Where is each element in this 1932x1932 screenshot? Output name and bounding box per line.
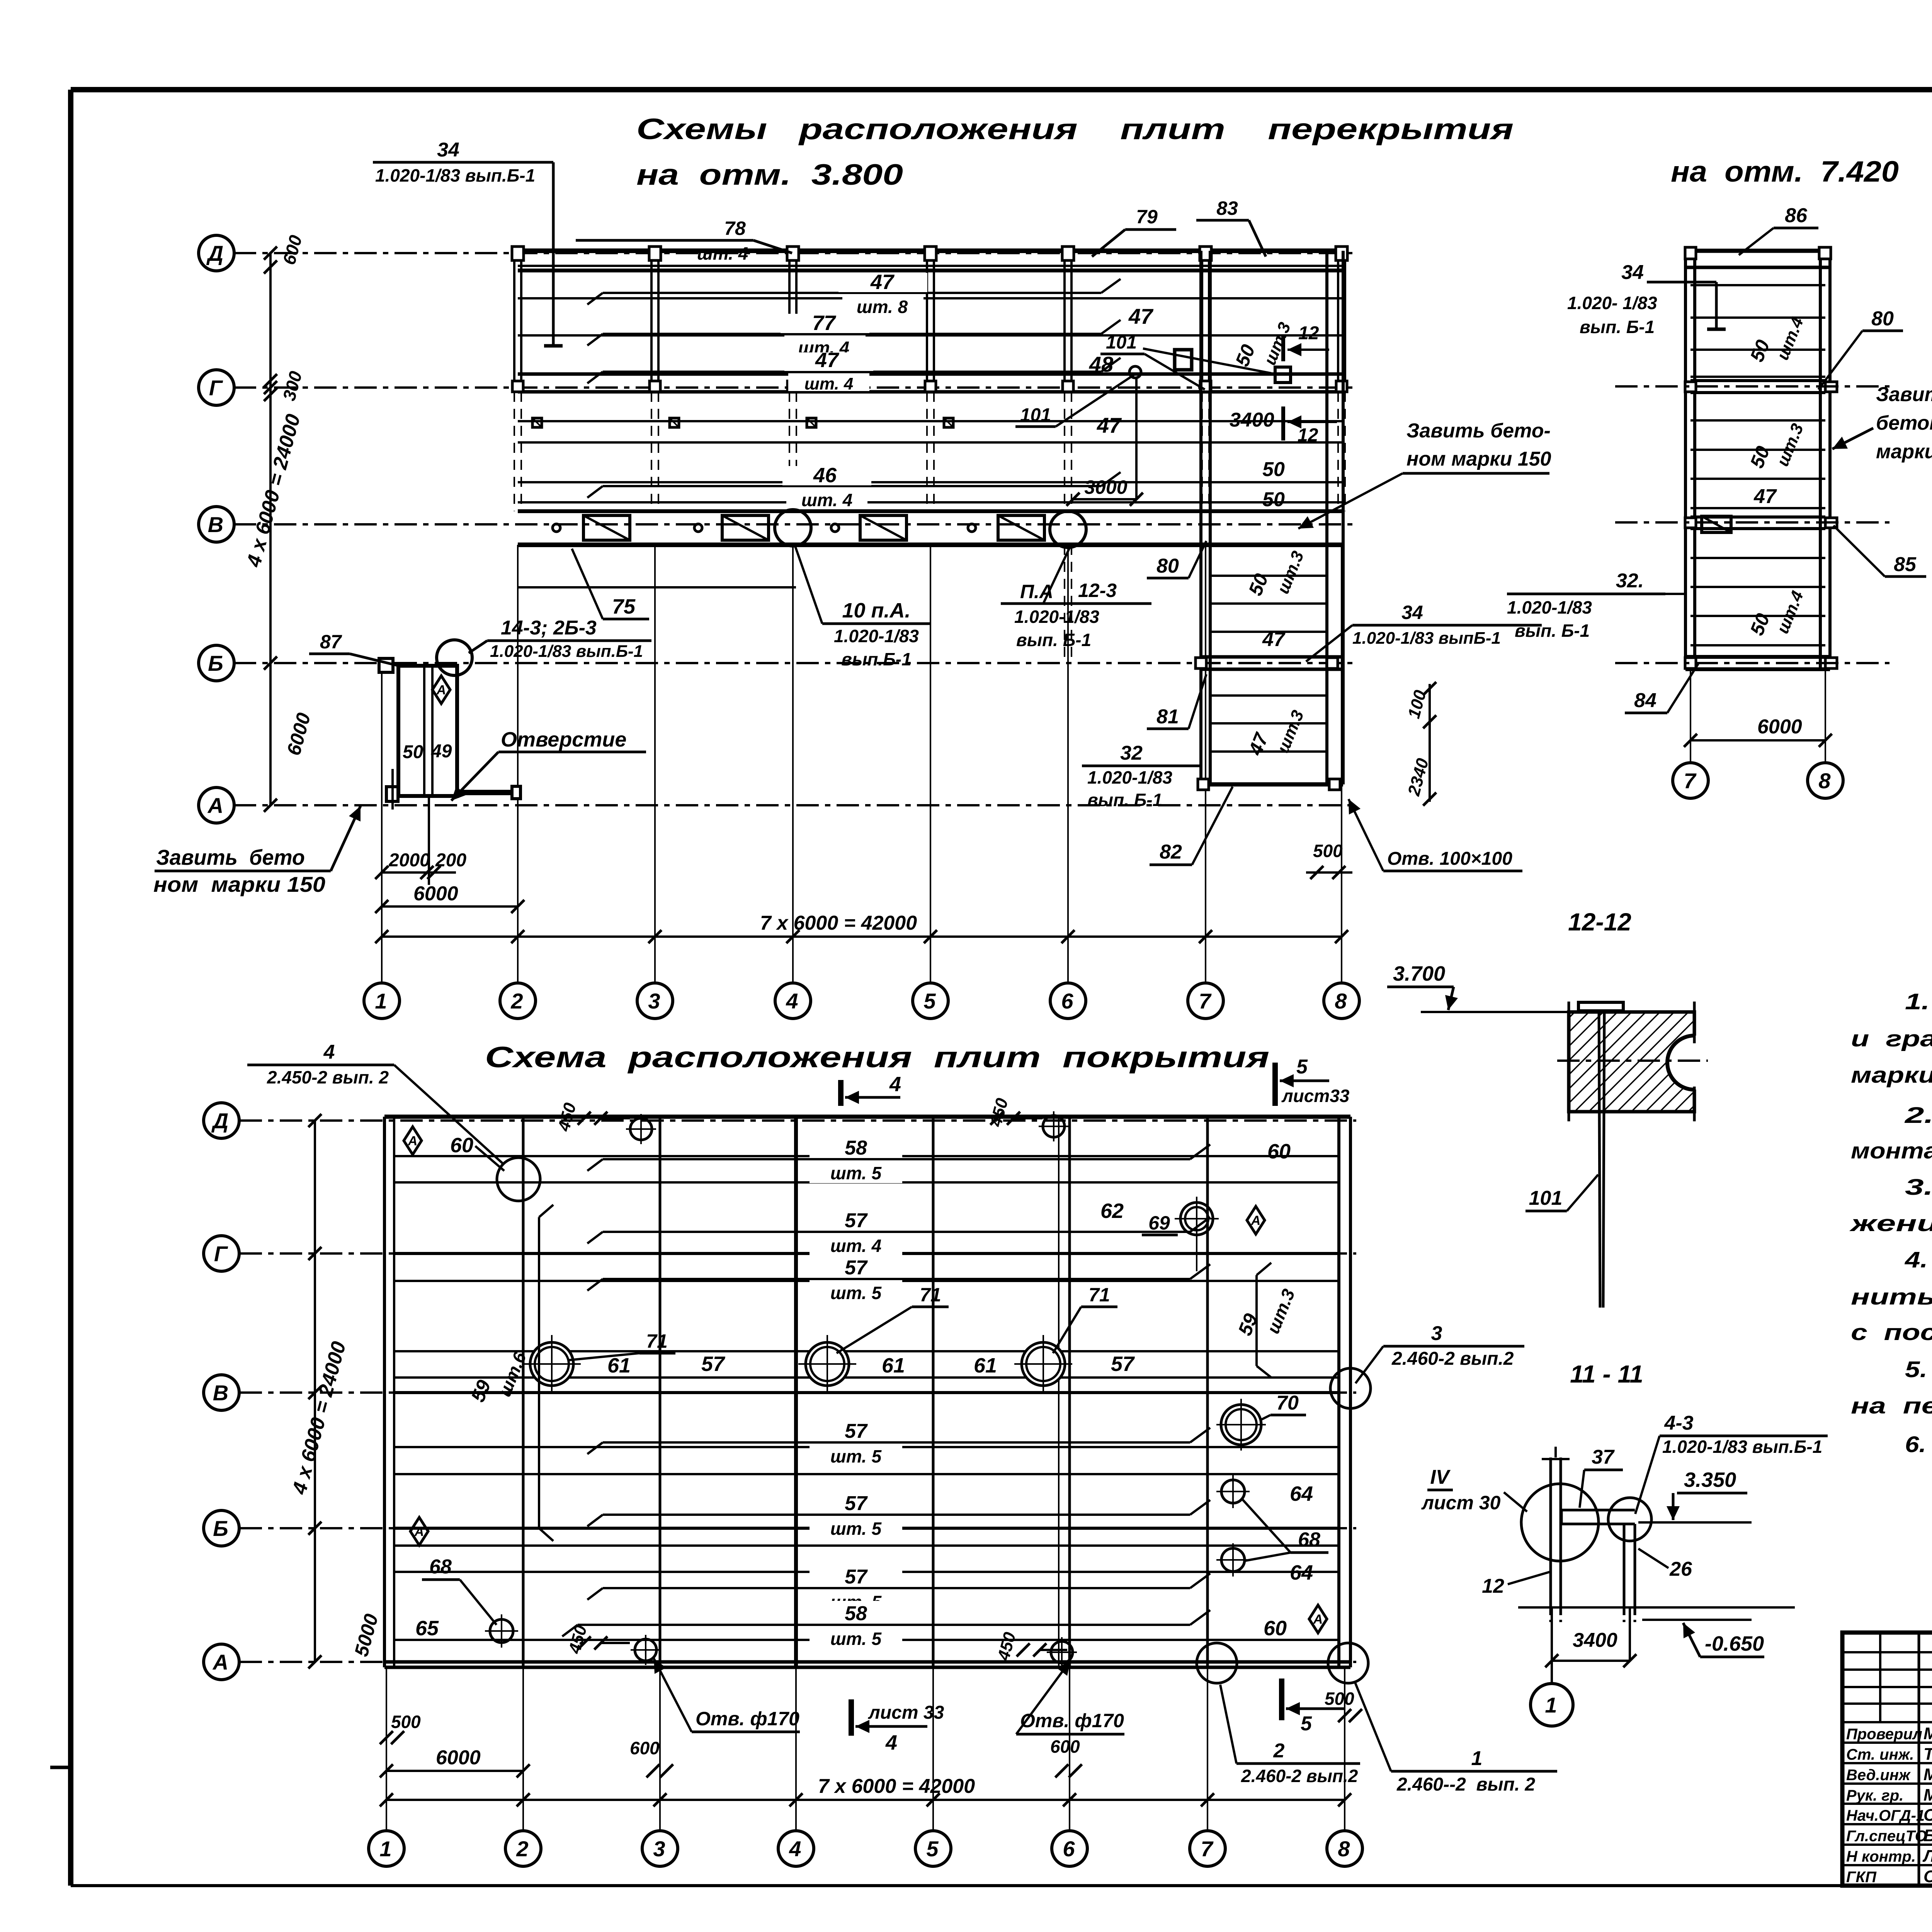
svg-text:Проверил: Проверил xyxy=(1846,1726,1922,1743)
room bottom-left square xyxy=(386,787,398,801)
column line axis 6 upper xyxy=(1063,251,1066,392)
svg-text:ном марки 150: ном марки 150 xyxy=(1406,448,1551,470)
bolt circle on row В xyxy=(694,524,702,532)
svg-text:7: 7 xyxy=(1684,769,1697,793)
bottom slab line xyxy=(394,1639,1339,1641)
axis Б circle (bottom plan) xyxy=(204,1510,239,1546)
leader 4 xyxy=(394,1065,502,1163)
svg-text:Отв. 100×100: Отв. 100×100 xyxy=(1387,849,1512,869)
column circle 4 (top plan) xyxy=(775,983,811,1019)
column joint axis 6 xyxy=(1063,381,1073,392)
column cap axis 7 xyxy=(1200,247,1211,260)
svg-text:2.450-2 вып. 2: 2.450-2 вып. 2 xyxy=(267,1067,389,1087)
svg-text:2.460--2 вып. 2: 2.460--2 вып. 2 xyxy=(1396,1774,1535,1795)
svg-text:600: 600 xyxy=(1050,1736,1080,1757)
axis 6 lower thin line xyxy=(1067,545,1069,983)
mid slab line xyxy=(1690,615,1825,617)
bottom slab line xyxy=(394,1544,1339,1547)
svg-text:А: А xyxy=(1251,1213,1261,1228)
svg-text:на перекрытия 0,003 МПа.: на перекрытия 0,003 МПа. xyxy=(1851,1393,1932,1418)
svg-text:61: 61 xyxy=(974,1354,997,1377)
leader 12 xyxy=(1508,1572,1550,1584)
slab joint line xyxy=(518,334,1343,337)
mid plan right edge dbl xyxy=(1819,250,1822,669)
col ext right xyxy=(1629,1607,1631,1661)
svg-text:71: 71 xyxy=(1088,1284,1110,1306)
leader 101#1 xyxy=(1056,374,1135,427)
svg-text:Моргунов: Моргунов xyxy=(1923,1786,1932,1804)
svg-text:12: 12 xyxy=(1298,323,1319,344)
mid col joint БR xyxy=(1825,658,1837,668)
svg-text:57: 57 xyxy=(845,1420,868,1442)
svg-text:12-3: 12-3 xyxy=(1078,580,1117,601)
bottom plan left edge dbl xyxy=(383,1117,386,1667)
svg-text:57: 57 xyxy=(845,1209,868,1232)
leader завить2 xyxy=(1298,473,1403,529)
slab label 58 шт.5 r1 xyxy=(810,1135,902,1183)
underline 10пА xyxy=(822,622,930,625)
slab joint line (strip) xyxy=(1210,722,1327,724)
svg-text:Луценко: Луценко xyxy=(1922,1847,1932,1866)
mid slab line xyxy=(1690,586,1825,588)
svg-text:шт. 5: шт. 5 xyxy=(830,1519,882,1539)
svg-text:8: 8 xyxy=(1335,989,1347,1013)
slab label 57 шт.4 r2 xyxy=(810,1208,902,1256)
svg-text:6: 6 xyxy=(1063,1837,1075,1861)
beam plate on row В xyxy=(583,515,630,540)
column joint axis 3 xyxy=(650,381,660,392)
column joint axis 5 xyxy=(925,381,936,392)
beam end plate xyxy=(512,786,520,799)
column circle 7 (top plan) xyxy=(1188,983,1223,1019)
svg-text:вып. Б-1: вып. Б-1 xyxy=(1087,790,1162,810)
axis В line (top plan) xyxy=(234,523,1352,526)
slab joint line (strip) xyxy=(1210,602,1327,605)
dim line 42000 xyxy=(382,935,1342,938)
svg-text:12: 12 xyxy=(1482,1575,1504,1597)
svg-text:Д: Д xyxy=(211,1109,228,1133)
column line axis 4 upper xyxy=(788,251,791,392)
column cap axis 3 xyxy=(649,247,661,260)
svg-text:11 - 11: 11 - 11 xyxy=(1570,1360,1643,1388)
column line axis 4 dashed xyxy=(789,392,790,511)
svg-text:500: 500 xyxy=(391,1712,421,1732)
underline -0.650 xyxy=(1700,1656,1764,1658)
svg-text:Моргунов: Моргунов xyxy=(1923,1724,1932,1743)
column line axis 3 dashed xyxy=(651,392,652,511)
mid plan left edge dbl xyxy=(1684,250,1687,669)
underline 34r xyxy=(1352,624,1542,627)
svg-text:60: 60 xyxy=(450,1134,473,1157)
bottom plan left dim line xyxy=(314,1121,316,1662)
steel plate cap xyxy=(1578,1002,1623,1011)
column joint axis 8 xyxy=(1336,381,1347,392)
column mark square xyxy=(944,418,953,427)
column line axis 8 upper xyxy=(1337,251,1339,392)
svg-text:1.020- 1/83: 1.020- 1/83 xyxy=(1567,293,1657,313)
svg-text:3.350: 3.350 xyxy=(1684,1468,1736,1492)
stamp row line 6 xyxy=(1842,1844,1932,1846)
bottom slab line xyxy=(394,1376,1339,1379)
underline 79 xyxy=(1125,228,1176,231)
dim line 2000/200 xyxy=(381,871,456,874)
svg-text:80: 80 xyxy=(1156,555,1179,577)
row Б edge upper (strip) xyxy=(1201,655,1343,659)
svg-text:4-3: 4-3 xyxy=(1664,1412,1693,1434)
svg-text:86: 86 xyxy=(1785,204,1808,227)
stamp row line 4 xyxy=(1842,1803,1932,1805)
hole circle Ø170 at 2141 xyxy=(806,1342,849,1386)
bottom slab line xyxy=(394,1280,1339,1282)
stamp row line 3 xyxy=(1842,1782,1932,1785)
column cap axis 5 xyxy=(925,247,936,260)
leader 3 to circle xyxy=(1355,1346,1383,1383)
svg-text:Б: Б xyxy=(213,1516,228,1541)
level arrow 3.350 xyxy=(1672,1493,1675,1520)
axis Г circle (bottom plan) xyxy=(204,1236,239,1271)
mid plan row Г lines xyxy=(1690,379,1825,382)
axis Д line (top plan) xyxy=(234,252,1352,254)
column line axis 2 upper xyxy=(513,251,515,392)
svg-text:Вед.инж: Вед.инж xyxy=(1846,1767,1911,1784)
svg-text:10 п.А.: 10 п.А. xyxy=(842,599,910,622)
column line axis 2 dashed xyxy=(514,392,515,511)
svg-text:5: 5 xyxy=(1301,1713,1312,1735)
svg-text:57: 57 xyxy=(701,1352,726,1376)
svg-text:1.020-1/83: 1.020-1/83 xyxy=(1087,767,1172,787)
svg-text:вып.Б-1: вып.Б-1 xyxy=(841,649,911,669)
svg-text:60: 60 xyxy=(1264,1617,1287,1640)
column mark square xyxy=(670,418,679,427)
mid axis8 lower line xyxy=(1825,669,1826,763)
bracket 59 шт.6 xyxy=(538,1217,540,1528)
column cap axis 4 xyxy=(787,247,799,260)
column line axis 8 dashed xyxy=(1337,392,1339,511)
leader 3000 vert xyxy=(1135,378,1138,499)
bottom axis 8 line to circle xyxy=(1344,1667,1345,1831)
bracket 59 шт.3 xyxy=(1255,1275,1258,1366)
svg-text:14-3; 2Б-3: 14-3; 2Б-3 xyxy=(501,617,597,639)
mid slab line xyxy=(1690,376,1825,378)
level line 3.700 xyxy=(1421,1011,1694,1013)
svg-text:4: 4 xyxy=(789,1837,801,1861)
axis Б line (top plan) xyxy=(234,662,1352,664)
mid col joint ДR xyxy=(1819,247,1831,259)
svg-text:69: 69 xyxy=(1148,1212,1170,1234)
bolt circle on row В xyxy=(968,524,976,532)
mid axis В dash xyxy=(1615,521,1889,524)
hole circle Ø170 at 1428 xyxy=(530,1342,573,1386)
right edge outer line xyxy=(1342,251,1345,784)
svg-text:500: 500 xyxy=(1325,1689,1354,1709)
stamp mini row xyxy=(1842,1721,1932,1723)
column circle 7 (bottom plan) xyxy=(1190,1831,1225,1866)
svg-text:Осташевский: Осташевский xyxy=(1923,1867,1932,1886)
svg-text:Г: Г xyxy=(214,1242,228,1266)
svg-text:на отм. 7.420: на отм. 7.420 xyxy=(1671,155,1899,188)
label 77 шт.4 xyxy=(603,333,1101,335)
block centerline xyxy=(1557,1060,1708,1062)
right edge inner line xyxy=(1325,251,1328,784)
bottom axis 6 line to circle xyxy=(1069,1667,1070,1831)
svg-text:500: 500 xyxy=(1313,841,1343,861)
slab label 57 шт.5 r5 xyxy=(810,1418,902,1466)
svg-text:50: 50 xyxy=(1262,458,1285,481)
bottom slab line xyxy=(394,1571,1339,1573)
col stub dash left xyxy=(1549,1607,1552,1622)
stamp row line 5 xyxy=(1842,1823,1932,1825)
svg-text:57: 57 xyxy=(845,1566,868,1588)
column line axis 5 upper xyxy=(926,251,928,392)
svg-text:3: 3 xyxy=(653,1837,665,1861)
svg-text:2.460-2 вып.2: 2.460-2 вып.2 xyxy=(1241,1766,1358,1786)
column joint axis 4 xyxy=(787,381,798,392)
slab joint line xyxy=(518,297,1343,299)
mid axis7 lower line xyxy=(1690,669,1691,763)
axis 4 lower thin line xyxy=(792,545,794,983)
svg-text:5: 5 xyxy=(923,989,936,1013)
450 circle top a xyxy=(630,1118,652,1140)
leader завить xyxy=(331,806,361,871)
bottom axis 7 line to circle xyxy=(1207,1667,1208,1831)
hole circle Ø170 at 2700 xyxy=(1022,1342,1065,1386)
svg-text:5: 5 xyxy=(1296,1056,1308,1078)
bottom col line axis 7 xyxy=(1206,1117,1209,1667)
bottom axis 2 line to circle xyxy=(522,1667,524,1831)
svg-text:82: 82 xyxy=(1160,841,1182,863)
mid slab line xyxy=(1690,316,1825,319)
bolt circle on row В xyxy=(831,524,839,532)
underline завить xyxy=(155,870,331,872)
underline 83 xyxy=(1196,219,1249,222)
450 circle top b xyxy=(1043,1116,1065,1137)
room top-left square xyxy=(379,658,393,672)
row Г slab edge lower xyxy=(518,390,1343,394)
svg-text:1: 1 xyxy=(1471,1747,1483,1770)
slab joint line (strip) xyxy=(1210,694,1327,697)
mid col joint ДL xyxy=(1685,247,1696,259)
svg-text:7: 7 xyxy=(1199,989,1212,1013)
svg-text:Отв. ф170: Отв. ф170 xyxy=(1020,1710,1124,1731)
svg-text:1.020-1/83 вып.Б-1: 1.020-1/83 вып.Б-1 xyxy=(1662,1437,1822,1457)
svg-text:57: 57 xyxy=(1111,1352,1135,1376)
svg-text:1: 1 xyxy=(379,1837,391,1861)
svg-text:85: 85 xyxy=(1894,553,1917,576)
svg-text:8: 8 xyxy=(1818,769,1831,793)
hole circle 69 xyxy=(1180,1202,1213,1235)
leader 2 xyxy=(1220,1685,1236,1764)
svg-text:Г: Г xyxy=(209,376,223,400)
col stub dash right xyxy=(1623,1607,1626,1622)
svg-text:5: 5 xyxy=(926,1837,939,1861)
svg-text:1.020-1/83: 1.020-1/83 xyxy=(1507,597,1592,617)
mid slab line xyxy=(1690,644,1825,646)
svg-text:Отв. ф170: Отв. ф170 xyxy=(696,1708,799,1730)
svg-text:Завить бето-: Завить бето- xyxy=(1406,420,1551,442)
svg-text:61: 61 xyxy=(607,1354,631,1377)
axis Г circle (top plan) xyxy=(199,370,234,405)
slab joint line xyxy=(518,441,1343,444)
slab joint line xyxy=(518,501,1343,503)
room inner wall 2 xyxy=(431,666,434,796)
mid slab line xyxy=(1690,478,1825,480)
axis Г line (bottom plan) xyxy=(240,1252,1356,1255)
svg-text:64: 64 xyxy=(1290,1482,1313,1505)
svg-text:4: 4 xyxy=(786,989,798,1013)
svg-text:4: 4 xyxy=(323,1041,335,1063)
svg-text:3000: 3000 xyxy=(1084,476,1127,498)
column circle 5 (top plan) xyxy=(913,983,948,1019)
axis Б line (bottom plan) xyxy=(240,1527,1356,1529)
svg-text:75: 75 xyxy=(612,595,636,618)
ground line 11-11 xyxy=(1518,1606,1795,1609)
axis А circle (top plan) xyxy=(199,787,234,823)
underline завить2 xyxy=(1403,472,1549,475)
svg-text:68: 68 xyxy=(1298,1529,1320,1551)
svg-text:А: А xyxy=(408,1134,418,1148)
svg-text:1: 1 xyxy=(1545,1693,1557,1717)
leader Отверстие xyxy=(451,752,498,801)
svg-text:монтаже.: монтаже. xyxy=(1851,1138,1932,1163)
bottom col line axis 4 xyxy=(794,1117,798,1667)
slab label 57 шт.5 r7 xyxy=(810,1564,902,1612)
column circle 3 (bottom plan) xyxy=(642,1831,678,1866)
detail circle small xyxy=(1608,1498,1651,1541)
svg-text:Боярченко: Боярченко xyxy=(1923,1826,1932,1845)
diamond А bottom plan 2 xyxy=(410,1517,428,1545)
svg-text:70: 70 xyxy=(1276,1392,1299,1414)
column line axis 7 dashed xyxy=(1201,392,1203,511)
strip bottom edge xyxy=(1201,782,1343,787)
leader IV xyxy=(1504,1492,1527,1512)
svg-text:61: 61 xyxy=(882,1354,905,1377)
node circle 10 п.А (axis 4/В) xyxy=(775,510,811,546)
mid col joint ВR xyxy=(1825,518,1837,528)
wall stub line xyxy=(428,796,430,885)
col7 strip left dbl xyxy=(1199,251,1202,784)
column circle 4 (bottom plan) xyxy=(778,1831,814,1866)
svg-text:марки 150: марки 150 xyxy=(1876,440,1932,463)
svg-text:78: 78 xyxy=(724,218,746,239)
beam plate on row В xyxy=(722,515,769,540)
svg-text:6000: 6000 xyxy=(436,1747,481,1769)
steel plate 101 stem xyxy=(1599,1007,1600,1308)
leader 101s xyxy=(1567,1175,1598,1211)
room bottom cross tick xyxy=(391,769,394,810)
bracket horizontal bar xyxy=(1561,1509,1635,1512)
bottom axis 4 line to circle xyxy=(795,1667,797,1831)
svg-text:77: 77 xyxy=(812,311,837,335)
svg-text:3400: 3400 xyxy=(1230,409,1274,431)
svg-text:68: 68 xyxy=(429,1556,452,1578)
label underline 34 xyxy=(373,161,553,164)
svg-text:А: А xyxy=(1313,1612,1323,1627)
column line axis 7 upper xyxy=(1201,251,1203,392)
bottom col line axis 6 xyxy=(1068,1117,1071,1667)
bottom extra dbl line c6 xyxy=(1058,1117,1060,1667)
svg-text:вып. Б-1: вып. Б-1 xyxy=(1580,317,1655,337)
svg-text:Завить: Завить xyxy=(1876,383,1932,406)
svg-text:вып. Б-1: вып. Б-1 xyxy=(1016,630,1091,650)
svg-text:Отверстие: Отверстие xyxy=(501,728,626,751)
slab label 58 шт.5 r8 xyxy=(810,1601,902,1649)
svg-text:62: 62 xyxy=(1100,1199,1124,1223)
svg-text:2000: 2000 xyxy=(388,850,430,871)
svg-text:8: 8 xyxy=(1338,1837,1350,1861)
underline 101s xyxy=(1526,1210,1567,1213)
stamp mini row xyxy=(1842,1668,1932,1671)
label 46 шт.4 xyxy=(603,485,1101,487)
svg-text:57: 57 xyxy=(845,1492,868,1515)
bottom slab line xyxy=(394,1391,1339,1394)
svg-text:80: 80 xyxy=(1871,308,1894,330)
svg-text:60: 60 xyxy=(1267,1140,1291,1163)
stamp mini row xyxy=(1842,1686,1932,1688)
450 circle bot b xyxy=(1051,1641,1073,1663)
svg-text:нить рассверловкой отверстий: нить рассверловкой отверстий по периметр… xyxy=(1851,1284,1932,1310)
leader circle А/7 xyxy=(1197,1643,1237,1683)
leader 34 mid xyxy=(1647,281,1716,284)
bottom axis 5 line to circle xyxy=(932,1667,934,1831)
leader circle right edge xyxy=(1330,1368,1371,1408)
column cap axis 8 xyxy=(1336,247,1347,260)
slab edge below В band xyxy=(518,586,796,588)
mid axis Б dash xyxy=(1615,662,1889,664)
svg-text:47: 47 xyxy=(1262,628,1286,651)
svg-text:101: 101 xyxy=(1529,1187,1563,1209)
svg-text:48: 48 xyxy=(1089,352,1114,376)
svg-text:3: 3 xyxy=(648,989,660,1013)
hole small circle 64a xyxy=(1221,1480,1245,1503)
svg-text:шт. 4: шт. 4 xyxy=(804,374,854,393)
row Г slab edge upper xyxy=(518,372,1343,376)
svg-text:7 х 6000 = 42000: 7 х 6000 = 42000 xyxy=(760,912,917,934)
svg-text:57: 57 xyxy=(845,1257,868,1279)
svg-text:2: 2 xyxy=(516,1837,528,1861)
mid col joint БL xyxy=(1685,658,1696,668)
svg-text:600: 600 xyxy=(630,1738,660,1758)
underline 32 xyxy=(1082,765,1200,767)
column joint strip Б left xyxy=(1196,658,1206,668)
mid col joint ГR xyxy=(1825,382,1837,392)
level line -0.650 xyxy=(1642,1619,1752,1621)
small room block outline xyxy=(398,666,457,796)
leader отв100 xyxy=(1349,799,1383,871)
svg-text:шт. 4: шт. 4 xyxy=(697,243,748,264)
underline 32 mid xyxy=(1507,593,1665,595)
svg-text:1: 1 xyxy=(375,989,387,1013)
axis А circle (bottom plan) xyxy=(204,1644,239,1680)
hole circle 70 xyxy=(1221,1405,1261,1445)
svg-text:с последующей вырезкой арма: с последующей вырезкой арматуры. xyxy=(1851,1320,1932,1345)
svg-text:бетоном: бетоном xyxy=(1876,412,1932,434)
svg-text:47: 47 xyxy=(815,349,840,372)
left margin tick xyxy=(50,1766,72,1769)
svg-text:79: 79 xyxy=(1136,206,1158,228)
underline ПА12-3 xyxy=(1001,602,1151,605)
svg-text:1.020-1/83 вып.Б-1: 1.020-1/83 вып.Б-1 xyxy=(490,642,643,661)
leader 34 tick xyxy=(544,344,563,348)
bottom slab line xyxy=(394,1527,1339,1530)
mid circle 8 xyxy=(1808,763,1843,798)
svg-text:3400: 3400 xyxy=(1573,1629,1617,1651)
leader 68 b xyxy=(1243,1553,1291,1561)
leader circle (axis2) xyxy=(497,1158,540,1201)
column mark square xyxy=(807,418,816,427)
svg-text:-0.650: -0.650 xyxy=(1705,1632,1764,1655)
row В band top xyxy=(518,509,1343,513)
diamond А bottom plan 1 xyxy=(404,1127,422,1155)
